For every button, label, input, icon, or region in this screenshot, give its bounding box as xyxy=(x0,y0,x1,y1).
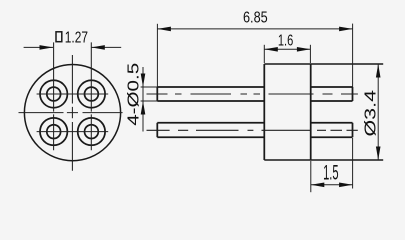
dimension 4-diameter0.5 lower extension line xyxy=(141,100,158,102)
pin 1 inner xyxy=(47,87,61,101)
arrow right of 6.85 xyxy=(339,27,353,32)
bottom pin left end xyxy=(156,123,158,137)
insulator body rectangle left edge xyxy=(263,64,265,160)
arrow right of square-1.27 xyxy=(91,45,105,50)
pin 1 (top-left) outer xyxy=(40,80,67,107)
left pin column centreline + extension to dimension xyxy=(53,42,55,150)
pin 2 inner xyxy=(85,87,99,101)
dimension 6.85 right extension line xyxy=(352,24,354,87)
dimension 1.5 right extension line xyxy=(352,138,354,189)
bottom pin centreline (dash-dot) xyxy=(147,129,358,131)
dimension diameter-3.4 line xyxy=(377,64,379,160)
dimension 4-diameter0.5 vertical line xyxy=(142,67,144,132)
dimension square-1.27 line right tail xyxy=(91,46,121,48)
arrow below pin pointing up xyxy=(141,101,146,115)
connector body outer circle xyxy=(24,65,120,161)
dimension 1.5 line xyxy=(311,184,353,186)
pin 4 (bottom-right) outer xyxy=(78,118,105,145)
svg-text:1.6: 1.6 xyxy=(278,33,293,50)
svg-text:Ø3.4: Ø3.4 xyxy=(362,90,379,137)
top pin left end xyxy=(156,87,158,101)
arrow above pin pointing down xyxy=(141,74,146,88)
dimension 1.6 left extension line xyxy=(263,45,265,63)
pin 3 inner xyxy=(47,125,61,139)
vertical centre axis xyxy=(71,55,73,171)
dimension 4-diameter0.5 upper extension line xyxy=(141,86,158,88)
top pin upper edge (right part) xyxy=(311,86,353,88)
top pin lower edge (right part) xyxy=(311,100,353,102)
body top edge + diameter-3.4 top extension line xyxy=(264,63,383,65)
top pin row centreline xyxy=(37,93,109,95)
top pin lower edge (left part) xyxy=(157,100,264,102)
svg-text:4-Ø0.5: 4-Ø0.5 xyxy=(126,63,143,126)
horizontal centre axis xyxy=(19,112,123,114)
body bottom edge + diameter-3.4 bottom extension line xyxy=(264,159,383,161)
arrow right of 1.6 xyxy=(297,47,311,52)
bottom pin upper edge (left part) xyxy=(157,122,264,124)
arrow bottom of diameter-3.4 xyxy=(376,147,381,161)
dimension square-1.27 line left tail xyxy=(24,46,53,48)
bottom pin lower edge (left part) xyxy=(157,136,264,138)
dimension 6.85 left extension line xyxy=(156,24,158,87)
dimension 6.85 line xyxy=(157,28,352,30)
dimension 1.5 left extension line xyxy=(310,161,312,192)
bottom pin upper edge (right part) xyxy=(311,122,353,124)
arrow left of square-1.27 xyxy=(40,45,54,50)
arrow left of 6.85 xyxy=(157,27,171,32)
right pin column centreline + extension to dimension xyxy=(90,42,92,150)
arrow left of 1.6 xyxy=(264,47,278,52)
svg-text:1.5: 1.5 xyxy=(323,162,339,185)
bottom pin row centreline xyxy=(37,131,109,133)
arrow left of 1.5 xyxy=(311,183,325,188)
square symbol of label 1.27 xyxy=(56,32,62,42)
bottom pin right end xyxy=(352,123,354,137)
top pin upper edge (left part) xyxy=(157,86,264,88)
pin 2 (top-right) outer xyxy=(78,80,105,107)
pin 4 inner xyxy=(85,125,99,139)
arrow top of diameter-3.4 xyxy=(376,64,381,78)
arrow right of 1.5 xyxy=(339,183,353,188)
dimension 1.6 line xyxy=(264,48,310,50)
dimension 1.6 right extension line xyxy=(309,45,311,63)
insulator body rectangle right edge xyxy=(310,64,312,160)
svg-text:6.85: 6.85 xyxy=(243,9,268,26)
top pin centreline (dash-dot) xyxy=(147,93,358,95)
bottom pin lower edge (right part) xyxy=(311,136,353,138)
pin 3 (bottom-left) outer xyxy=(40,118,67,145)
top pin right end xyxy=(352,87,354,101)
svg-text:1.27: 1.27 xyxy=(65,29,88,46)
